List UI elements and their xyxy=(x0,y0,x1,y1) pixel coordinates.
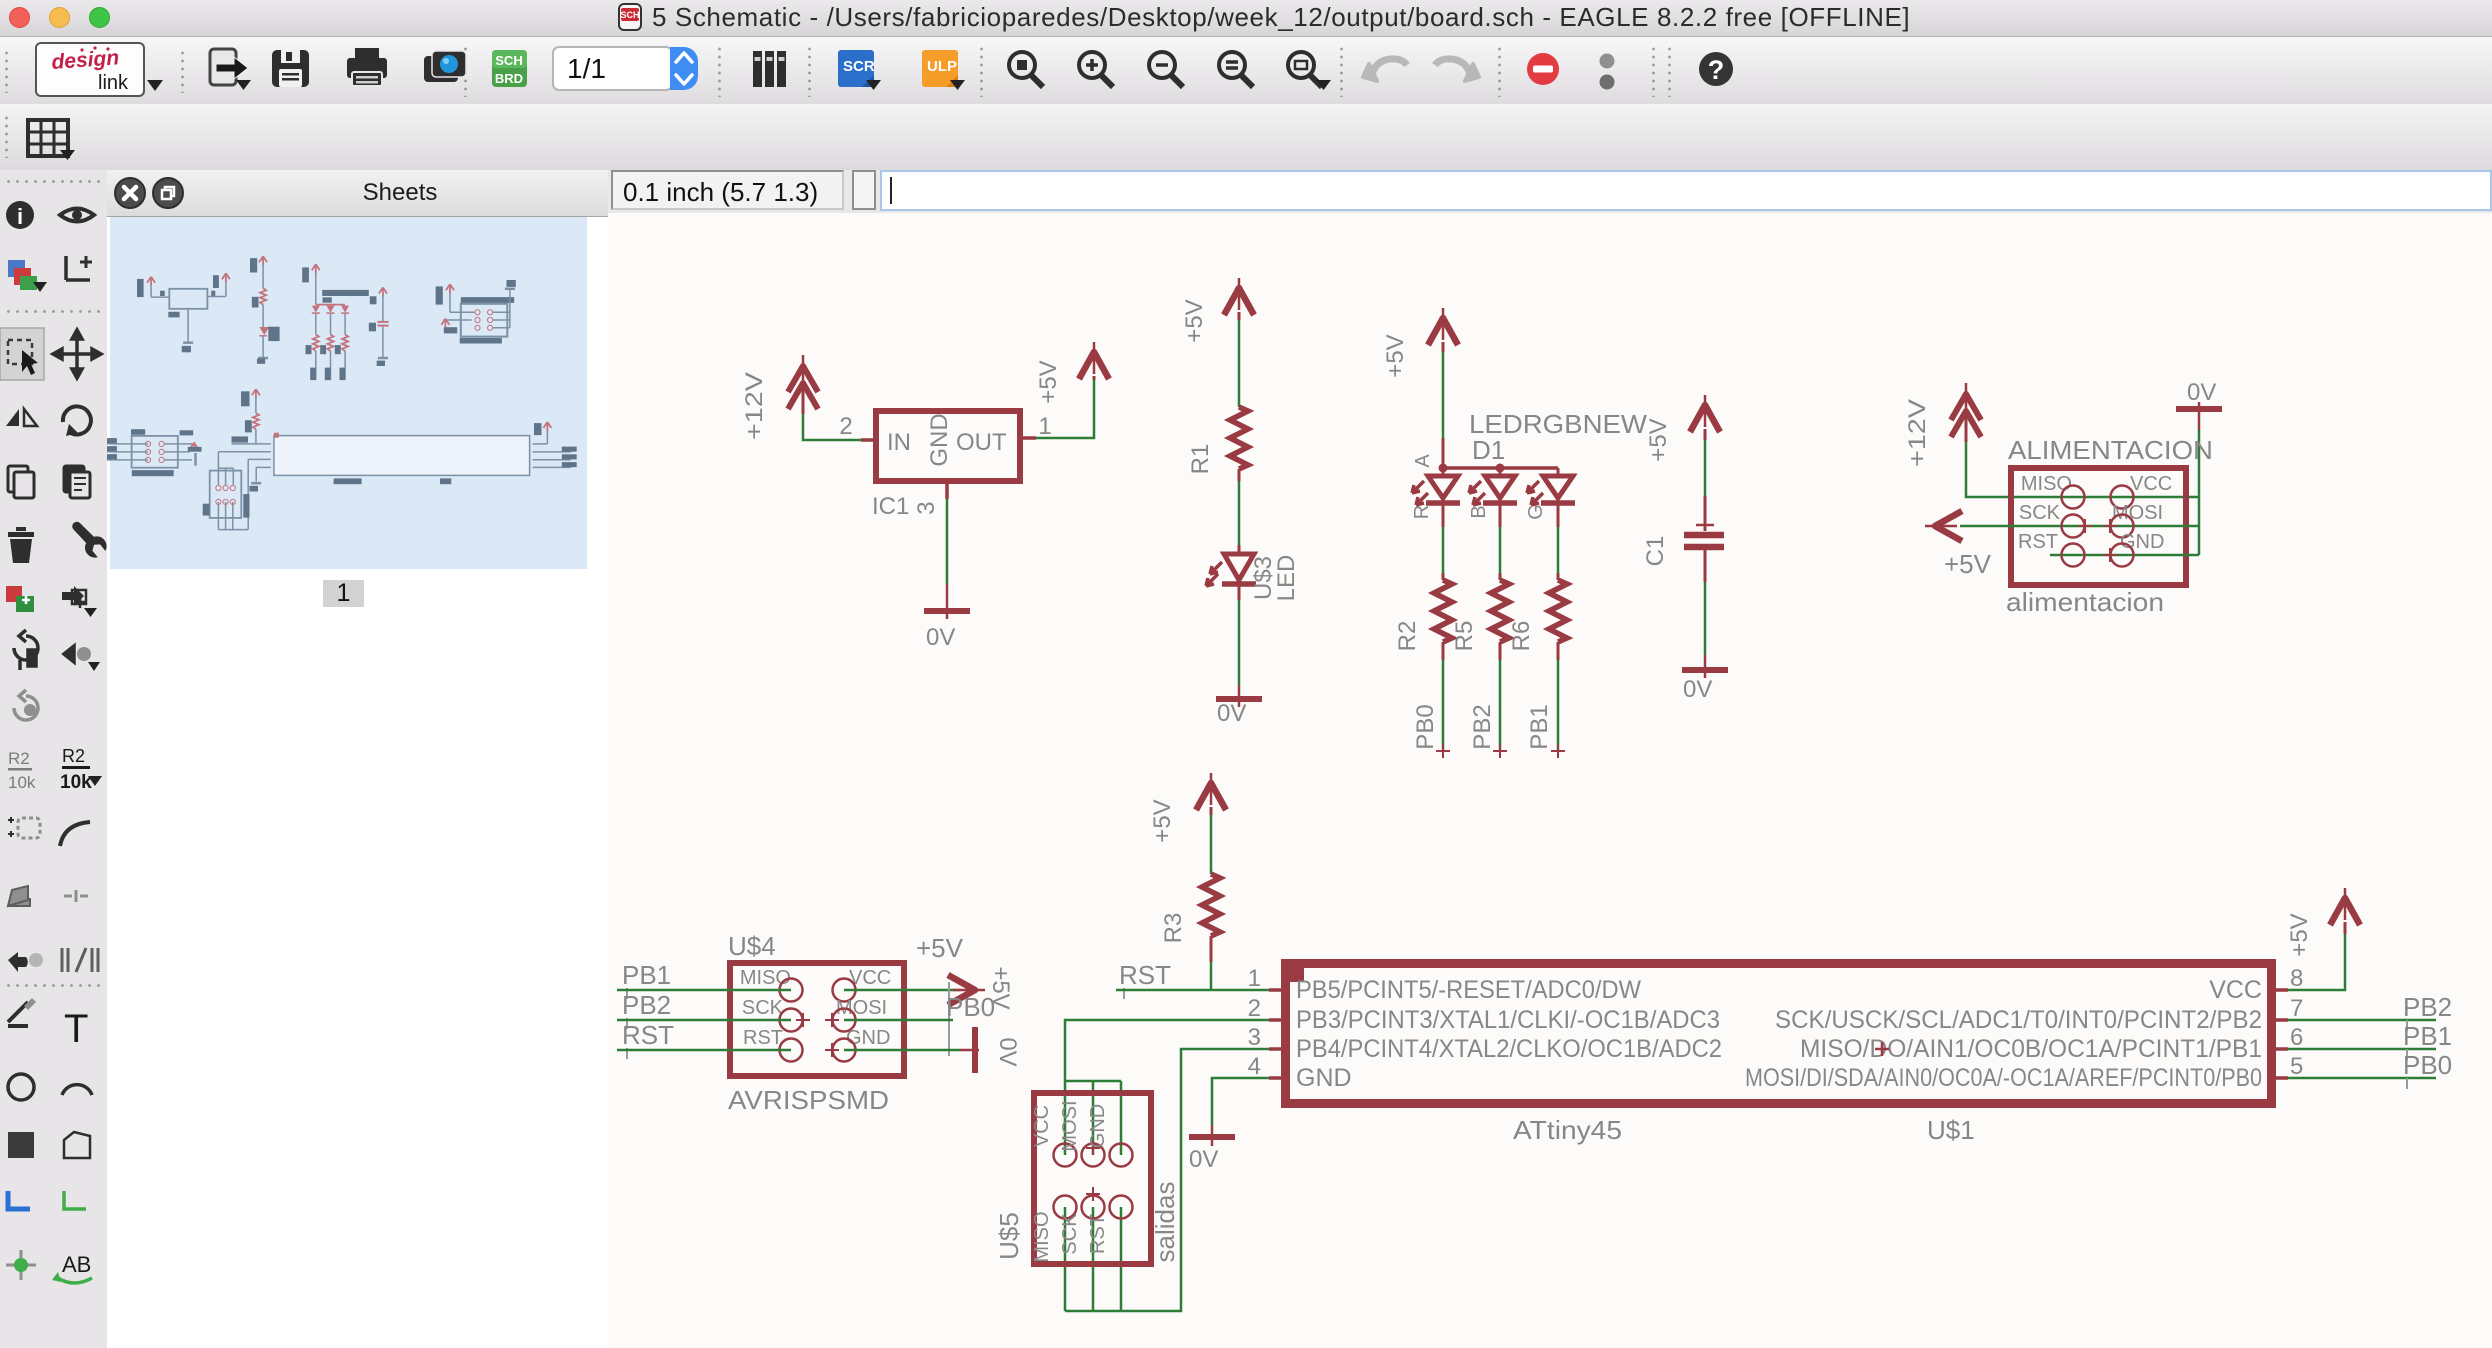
power symbol +5V (R3 pullup) xyxy=(1149,773,1226,843)
U$5 pin VCC xyxy=(1031,1105,1077,1167)
svg-text:+5V: +5V xyxy=(1149,799,1176,842)
pressed select tool xyxy=(0,328,101,380)
ground symbol 0V (C1) xyxy=(1682,655,1728,703)
svg-text:5: 5 xyxy=(2290,1053,2303,1080)
svg-text:PB2: PB2 xyxy=(622,990,671,1020)
undo redo xyxy=(1371,59,1407,78)
svg-text:U$1: U$1 xyxy=(1927,1115,1975,1145)
wire R2 to PB0 xyxy=(1442,642,1445,660)
LED D1 blue element xyxy=(1468,468,1517,519)
U$4 pin VCC xyxy=(833,967,892,1002)
svg-text:7: 7 xyxy=(2290,995,2303,1022)
svg-text:PB0: PB0 xyxy=(946,992,995,1022)
ground symbol 0V (IC1) xyxy=(924,584,970,651)
svg-text:2: 2 xyxy=(1248,995,1261,1022)
U$4 pin RST xyxy=(743,1027,803,1062)
svg-text:0V: 0V xyxy=(1217,700,1246,727)
resistor R2 xyxy=(1394,580,1452,651)
pin 1 stub xyxy=(1269,988,1286,992)
pin SCK xyxy=(2019,502,2092,538)
svg-text:PB0: PB0 xyxy=(1412,704,1439,749)
wire IC1 GND to ground xyxy=(946,499,949,584)
svg-text:VCC: VCC xyxy=(1031,1105,1053,1147)
svg-text:R5: R5 xyxy=(1451,621,1478,652)
svg-text:R2: R2 xyxy=(8,749,30,768)
svg-text:LED: LED xyxy=(1273,555,1300,602)
wire pin 5 to PB0 xyxy=(2288,1077,2436,1080)
svg-text:0V: 0V xyxy=(1189,1146,1218,1173)
pin 6 stub xyxy=(2271,1047,2288,1051)
svg-text:PB1: PB1 xyxy=(2403,1021,2452,1051)
svg-text:alimentacion: alimentacion xyxy=(2006,587,2164,617)
svg-text:+5V: +5V xyxy=(1035,360,1062,403)
power symbol +5V (C1 branch) xyxy=(1645,395,1720,462)
junction (LED B anode) xyxy=(1496,464,1505,473)
svg-text:ALIMENTACION: ALIMENTACION xyxy=(2008,435,2213,465)
svg-text:3: 3 xyxy=(913,501,940,514)
power symbol +12V (IC1 input) xyxy=(741,355,818,440)
svg-text:SCK: SCK xyxy=(742,997,784,1019)
power symbol +12V (ALIMENTACION) xyxy=(1904,383,1981,467)
ground symbol 0V (ATtiny GND) xyxy=(1189,1125,1235,1173)
svg-text:+12V: +12V xyxy=(741,372,768,440)
svg-text:+5V: +5V xyxy=(1944,549,1992,579)
origin marker (selected corner) xyxy=(1283,961,1304,982)
pin 2 stub xyxy=(1269,1018,1286,1022)
svg-text:MISO/DO/AIN1/OC0B/OC1A/PCINT1/: MISO/DO/AIN1/OC0B/OC1A/PCINT1/PB1 xyxy=(1800,1035,2262,1063)
wire +12V to IC1 pin 2 xyxy=(803,414,861,440)
pin VCC xyxy=(2111,473,2173,509)
pin MISO xyxy=(2021,473,2085,509)
svg-text:3: 3 xyxy=(1248,1024,1261,1051)
wire C1 to ground xyxy=(1704,550,1707,582)
svg-text:RST: RST xyxy=(622,1020,674,1050)
wire LED B cathode to R5 xyxy=(1499,505,1502,527)
svg-text:PB1: PB1 xyxy=(622,960,671,990)
wire +5V to R3 xyxy=(1210,815,1213,874)
connector U$4 body xyxy=(730,963,904,1076)
pin 7 stub xyxy=(2271,1018,2288,1022)
resistor R6 xyxy=(1508,580,1567,651)
svg-text:PB2: PB2 xyxy=(1469,704,1496,749)
svg-text:0V: 0V xyxy=(1683,676,1712,703)
svg-text:+12V: +12V xyxy=(1904,399,1931,467)
wire +5V to SCK/MOSI row xyxy=(1960,525,2199,528)
svg-text:GND: GND xyxy=(1296,1064,1352,1092)
wire +12V to MISO pin row xyxy=(1966,442,2199,497)
help xyxy=(1699,52,1733,86)
svg-text:IC1: IC1 xyxy=(872,493,909,520)
junction node A xyxy=(1439,464,1448,473)
svg-text:6: 6 xyxy=(2290,1024,2303,1051)
svg-text:PB0: PB0 xyxy=(2403,1050,2452,1080)
wire R1 to LED U$3 xyxy=(1238,469,1241,481)
pin 2 stub of IC1 xyxy=(861,438,877,442)
LED D1 green element xyxy=(1525,468,1575,520)
svg-text:+5V: +5V xyxy=(916,933,964,963)
pin 1 stub of IC1 xyxy=(1019,436,1036,440)
svg-text:SCK/USCK/SCL/ADC1/T0/INT0/PCIN: SCK/USCK/SCL/ADC1/T0/INT0/PCINT2/PB2 xyxy=(1775,1006,2262,1034)
pin MOSI xyxy=(2103,502,2163,538)
wire 0V down right side xyxy=(2198,430,2201,555)
ground symbol 0V (LED) xyxy=(1216,685,1262,727)
svg-text:SCK: SCK xyxy=(2019,502,2061,524)
svg-text:PB2: PB2 xyxy=(2403,992,2452,1022)
voltage regulator IC1 body xyxy=(876,411,1020,481)
svg-text:BRD: BRD xyxy=(495,71,523,86)
wire IC1 OUT to +5V xyxy=(1036,376,1094,438)
svg-text:RST: RST xyxy=(743,1027,783,1049)
svg-text:0V: 0V xyxy=(926,624,955,651)
svg-text:PB4/PCINT4/XTAL2/CLKO/OC1B/ADC: PB4/PCINT4/XTAL2/CLKO/OC1B/ADC2 xyxy=(1296,1035,1722,1063)
pin RST xyxy=(2018,531,2085,567)
svg-text:A: A xyxy=(1412,454,1434,468)
svg-text:AB: AB xyxy=(62,1252,91,1277)
svg-text:8: 8 xyxy=(2290,965,2303,992)
wire MOSI to PB0 xyxy=(844,1019,953,1022)
svg-text:4: 4 xyxy=(1248,1053,1261,1080)
connector U$5 body xyxy=(1034,1093,1151,1264)
svg-text:C1: C1 xyxy=(1642,536,1669,567)
U$4 pin MISO xyxy=(740,967,803,1002)
ground symbol 0V (U$4, rotated) xyxy=(960,1027,1021,1073)
svg-text:G: G xyxy=(1525,504,1547,520)
svg-text:AVRISPSMD: AVRISPSMD xyxy=(728,1085,889,1115)
wire LED G cathode to R6 xyxy=(1557,505,1560,527)
svg-text:2: 2 xyxy=(839,413,852,440)
svg-text:R: R xyxy=(1411,505,1433,519)
pin 3 stub xyxy=(1269,1047,1286,1051)
svg-text:+5V: +5V xyxy=(1181,299,1208,342)
svg-text:PB1: PB1 xyxy=(1526,704,1553,749)
U$4 pin SCK xyxy=(742,997,810,1032)
svg-text:design: design xyxy=(51,46,120,74)
svg-text:?: ? xyxy=(1708,55,1725,85)
resistor R3 xyxy=(1160,874,1220,943)
svg-text:R3: R3 xyxy=(1160,913,1187,944)
svg-text:link: link xyxy=(98,72,129,94)
svg-text:1: 1 xyxy=(1038,413,1051,440)
wire RST/GND row xyxy=(2050,554,2199,557)
wire R5 to PB2 xyxy=(1499,642,1502,660)
magnifiers xyxy=(1009,52,1322,87)
power symbol +5V (left arrow) xyxy=(1925,511,1992,579)
wire VCC to +5V arrow xyxy=(844,989,960,992)
svg-text:RST: RST xyxy=(2018,531,2058,553)
wire pin 7 to PB2 xyxy=(2288,1019,2436,1022)
cross on PB1 row (pin origin) xyxy=(1875,1042,1889,1056)
U$5 pin SCK xyxy=(1059,1187,1105,1255)
wire R6 to PB1 xyxy=(1557,642,1560,660)
connector ALIMENTACION body xyxy=(2011,468,2186,585)
svg-text:R2: R2 xyxy=(1394,621,1421,652)
resistor R5 xyxy=(1451,580,1509,651)
microcontroller U$1 ATtiny45 body xyxy=(1286,964,2272,1104)
wire pin 6 to PB1 xyxy=(2288,1048,2436,1051)
svg-text:+5V: +5V xyxy=(1382,334,1409,377)
svg-text:0V: 0V xyxy=(2187,379,2216,406)
svg-text:GND: GND xyxy=(2120,531,2164,553)
svg-text:D1: D1 xyxy=(1472,435,1505,465)
svg-text:T: T xyxy=(64,1007,88,1051)
wire +5V to C1 xyxy=(1704,440,1707,496)
wire +5V to R1 xyxy=(1238,320,1241,407)
svg-text:VCC: VCC xyxy=(2130,473,2172,495)
pin 4 stub xyxy=(1269,1076,1286,1080)
wire GND to 0V xyxy=(844,1049,960,1052)
ground symbol 0V (ALIMENTACION) xyxy=(2176,379,2222,430)
svg-text:RST: RST xyxy=(1119,960,1171,990)
svg-text:RST: RST xyxy=(1087,1214,1109,1254)
anode bus wire xyxy=(1443,466,1558,470)
svg-text:R2: R2 xyxy=(62,746,85,766)
power symbol +5V (RGB LED anode) xyxy=(1382,308,1458,378)
U$4 pin GND xyxy=(825,1027,890,1062)
U$5 pin GND xyxy=(1087,1104,1133,1167)
wire RST to ATtiny pin 1 xyxy=(1116,989,1269,992)
svg-text:U$5: U$5 xyxy=(994,1212,1024,1260)
wire R3 to RST net xyxy=(1210,936,1213,962)
svg-text:MISO: MISO xyxy=(2021,473,2072,495)
svg-text:MOSI: MOSI xyxy=(2112,502,2163,524)
grid icon row2 xyxy=(28,120,75,160)
svg-text:salidas: salidas xyxy=(1150,1182,1180,1263)
U$5 pin MOSI xyxy=(1059,1100,1105,1166)
svg-text:SCR: SCR xyxy=(843,58,875,75)
svg-text:GND: GND xyxy=(1087,1104,1109,1148)
svg-text:GND: GND xyxy=(846,1027,890,1049)
wire RST to U$4 RST pin xyxy=(617,1049,791,1052)
wire LED to ground xyxy=(1238,584,1241,600)
svg-text:GND: GND xyxy=(926,413,953,466)
wire LED R cathode to R2 xyxy=(1442,505,1445,527)
svg-text:1: 1 xyxy=(1248,965,1261,992)
LED U$3 xyxy=(1206,554,1300,601)
svg-text:MISO: MISO xyxy=(1031,1211,1053,1262)
svg-text:ULP: ULP xyxy=(927,58,957,75)
svg-text:R6: R6 xyxy=(1508,621,1535,652)
svg-text:MOSI: MOSI xyxy=(1059,1100,1081,1151)
svg-text:MOSI/DI/SDA/AIN0/OC0A/-OC1A/AR: MOSI/DI/SDA/AIN0/OC0A/-OC1A/AREF/PCINT0/… xyxy=(1745,1064,2262,1092)
stop xyxy=(1527,53,1559,85)
resistor R1 xyxy=(1187,407,1248,474)
pin 5 stub xyxy=(2271,1076,2288,1080)
svg-text:1/1: 1/1 xyxy=(567,53,606,84)
svg-text:+5V: +5V xyxy=(2286,913,2313,956)
svg-text:VCC: VCC xyxy=(2209,976,2262,1004)
svg-text:SCK: SCK xyxy=(1059,1213,1081,1255)
overflow dots xyxy=(1600,54,1615,69)
wires U$5 bottom pins to salidas xyxy=(1064,1207,1067,1311)
U$5 pin MISO xyxy=(1031,1196,1077,1263)
power symbol +5V (U$4, pointing right) xyxy=(948,966,1014,1009)
svg-text:SCH: SCH xyxy=(620,10,639,20)
svg-text:MISO: MISO xyxy=(740,967,791,989)
svg-text:IN: IN xyxy=(887,429,911,456)
power symbol +5V (VCC) xyxy=(2286,888,2360,957)
label origin line xyxy=(948,982,950,1056)
svg-text:U$4: U$4 xyxy=(728,931,776,961)
svg-text:0V: 0V xyxy=(994,1037,1021,1066)
capacitor C1 xyxy=(1642,525,1724,566)
svg-text:R1: R1 xyxy=(1187,444,1214,475)
wire pin 3 to salidas net xyxy=(1065,1049,1269,1311)
wire PB2 to SCK xyxy=(617,1019,791,1022)
U$5 pin RST xyxy=(1087,1196,1133,1255)
svg-text:PB5/PCINT5/-RESET/ADC0/DW: PB5/PCINT5/-RESET/ADC0/DW xyxy=(1296,976,1641,1004)
wire pin 8 VCC to +5V xyxy=(2288,932,2345,990)
svg-text:10k: 10k xyxy=(8,773,36,792)
wire +5V to RGB LED anode node A xyxy=(1442,352,1445,438)
svg-text:+5V: +5V xyxy=(1645,418,1672,461)
power symbol +5V (R1 branch) xyxy=(1181,278,1254,343)
wire pin 4 GND to ground xyxy=(1212,1078,1269,1125)
svg-text:OUT: OUT xyxy=(956,429,1007,456)
svg-text:i: i xyxy=(17,204,23,229)
U$4 pin MOSI xyxy=(825,997,887,1032)
svg-text:10k: 10k xyxy=(60,772,92,793)
svg-text:B: B xyxy=(1468,505,1490,518)
power symbol +5V (IC1 output) xyxy=(1035,342,1109,404)
wire PB1 to MISO xyxy=(617,989,791,992)
design link button xyxy=(36,43,163,96)
pin 3 stub of IC1 xyxy=(945,481,949,499)
pin 8 stub xyxy=(2271,988,2288,992)
LED D1 red element xyxy=(1411,468,1460,519)
svg-text:ATtiny45: ATtiny45 xyxy=(1513,1115,1622,1145)
svg-text:SCH: SCH xyxy=(495,53,522,68)
svg-text:PB3/PCINT3/XTAL1/CLKI/-OC1B/AD: PB3/PCINT3/XTAL1/CLKI/-OC1B/ADC3 xyxy=(1296,1006,1720,1034)
wire pin 2 to U$5 top pins xyxy=(1065,1020,1269,1155)
pin GND xyxy=(2103,531,2164,567)
